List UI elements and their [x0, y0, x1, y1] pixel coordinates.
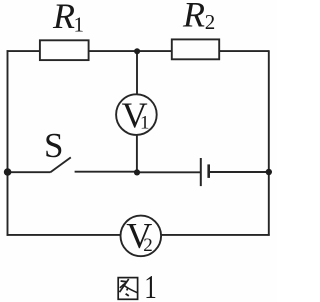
- svg-text:1: 1: [144, 268, 157, 302]
- svg-text:R: R: [182, 0, 205, 35]
- svg-text:1: 1: [74, 12, 85, 36]
- svg-text:R: R: [52, 0, 75, 36]
- svg-text:2: 2: [205, 10, 216, 34]
- svg-text:S: S: [44, 126, 63, 165]
- svg-text:2: 2: [143, 235, 153, 256]
- svg-text:1: 1: [140, 113, 150, 134]
